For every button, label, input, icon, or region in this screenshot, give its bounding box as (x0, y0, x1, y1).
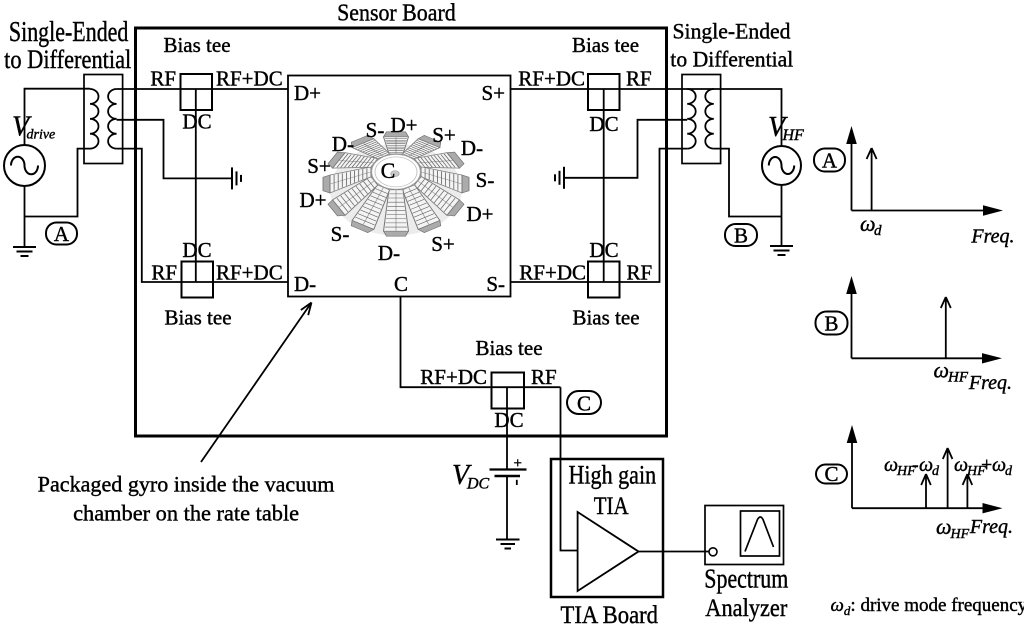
svg-text:DC: DC (182, 110, 211, 134)
svg-text:Freq.: Freq. (968, 372, 1012, 394)
svg-text:C: C (824, 462, 838, 486)
svg-text:S-: S- (331, 222, 350, 246)
label RF B3 (626, 67, 652, 91)
svg-text:to Differential: to Differential (4, 45, 131, 74)
transformer T1 primary coil (90, 89, 99, 149)
bias tee B2 (lower-left) box (182, 262, 214, 298)
svg-text:S-: S- (486, 272, 505, 296)
bias tee B5 (bottom) box (492, 373, 525, 409)
wire T1 center tap to ground (117, 120, 231, 179)
ground under V_drive (13, 247, 36, 256)
wire B5 DC to battery (506, 387, 508, 469)
svg-text:DC: DC (494, 408, 523, 432)
label Freq. plot C (969, 516, 1013, 538)
label Spectrum Analyzer (704, 564, 788, 623)
label RF+DC B1 (216, 67, 283, 91)
label Sensor Board (337, 0, 456, 27)
svg-text:chamber on the rate table: chamber on the rate table (73, 501, 299, 526)
svg-text:HF: HF (782, 127, 805, 144)
plot C axes (847, 425, 1003, 513)
svg-text:HF: HF (950, 527, 970, 542)
ground under battery (496, 540, 520, 549)
label Bias tee B5 (475, 336, 542, 360)
wire TIA output to spectrum analyzer (639, 551, 710, 553)
plot C marker (816, 462, 847, 486)
label DC B1 (182, 110, 211, 134)
label RF+DC B2 (216, 261, 283, 285)
svg-text:HF: HF (947, 370, 969, 386)
op-amp TIA triangle (578, 512, 639, 591)
plot B spectral line at omega_HF (941, 297, 951, 358)
label S- corner (486, 272, 505, 296)
label Packaged gyro caption (38, 472, 335, 526)
gyro package box (288, 76, 511, 297)
svg-text:D-: D- (378, 241, 400, 265)
plot A spectral line at omega_d (867, 148, 877, 211)
wire gyro S- lower line to T2 secondary bottom (511, 149, 688, 282)
label RF+DC B4 (519, 261, 586, 285)
wire V_drive bottom to ground (24, 186, 26, 247)
label V_DC (452, 460, 490, 493)
svg-text:A: A (822, 149, 838, 173)
svg-text:DC: DC (182, 238, 211, 262)
wire T2 center tap to ground (565, 120, 687, 178)
label Single-Ended to Differential (left) (4, 16, 131, 74)
label V_drive (12, 112, 55, 143)
plot A marker (814, 149, 845, 173)
svg-text:S-: S- (476, 168, 495, 192)
svg-text:RF: RF (151, 261, 177, 285)
ground sideways right (555, 167, 564, 189)
label omega_HF (934, 358, 969, 386)
wire B5 RF to TIA input (561, 387, 578, 550)
source V_HF (762, 146, 801, 185)
svg-text:-: - (912, 454, 919, 476)
svg-text:S+: S+ (432, 123, 456, 147)
svg-text:ω: ω (919, 454, 933, 476)
label RF B4 (627, 261, 653, 285)
bias tee B3 (top-right) box (588, 74, 620, 110)
svg-text:Sensor Board: Sensor Board (337, 0, 456, 27)
svg-text:RF+DC: RF+DC (518, 67, 585, 91)
transformer T2 box (682, 75, 721, 164)
label omega_HF minus omega_d (884, 454, 940, 479)
svg-text:+: + (514, 456, 522, 472)
label battery plus (514, 456, 522, 472)
svg-text:Bias tee: Bias tee (163, 33, 230, 57)
svg-text:D+: D+ (294, 81, 321, 105)
svg-text:d: d (932, 464, 940, 479)
svg-text:Bias tee: Bias tee (475, 336, 542, 360)
svg-text:Analyzer: Analyzer (705, 595, 788, 622)
label omega_HF below axis C (936, 514, 970, 542)
svg-text:TIA Board: TIA Board (561, 602, 659, 625)
svg-text:C: C (381, 158, 396, 183)
svg-text:DC: DC (466, 476, 490, 493)
label Freq. plot A (970, 226, 1014, 248)
svg-text:S-: S- (366, 118, 385, 142)
plot C spectral line at omega_HF plus omega_d (963, 474, 973, 508)
label V_HF (768, 112, 804, 144)
wire DC line left (B1 to B2) (195, 89, 197, 282)
plot C spectral line at omega_HF minus omega_d (921, 474, 931, 508)
label RF+DC B3 (518, 67, 585, 91)
svg-text:D-: D- (461, 136, 483, 160)
svg-text:S+: S+ (307, 154, 331, 178)
svg-text:RF+DC: RF+DC (519, 261, 586, 285)
ground sideways left (232, 167, 241, 189)
svg-text:RF+DC: RF+DC (216, 261, 283, 285)
transformer T2 primary coil (705, 89, 714, 149)
wire T2 primary bottom to V_HF bottom (714, 149, 782, 217)
annotation arrow to gyro box (201, 303, 312, 463)
svg-text:D+: D+ (299, 188, 326, 212)
svg-text:RF+DC: RF+DC (420, 365, 487, 389)
svg-text:ωd: drive mode frequency: ωd: drive mode frequency (831, 595, 1024, 618)
label Bias tee B3 (572, 33, 639, 57)
wire T1 secondary bottom to lower RF line (117, 149, 288, 282)
label Bias tee B1 (163, 33, 230, 57)
svg-text:S+: S+ (481, 81, 505, 105)
svg-text:RF: RF (531, 365, 557, 389)
ground under V_HF (770, 246, 793, 255)
source V_drive (4, 145, 45, 186)
battery V_DC (490, 470, 527, 477)
footnote omega_d drive mode frequency (831, 595, 1024, 618)
svg-text:C: C (394, 272, 408, 296)
svg-text:d: d (1005, 464, 1013, 479)
node C marker (567, 391, 601, 416)
label RF B5 (531, 365, 557, 389)
label D+ corner (294, 81, 321, 105)
label RF B1 (150, 67, 176, 91)
label DC B2 (182, 238, 211, 262)
plot C spectral line at omega_HF (943, 448, 953, 508)
svg-text:to Differential: to Differential (670, 47, 793, 72)
svg-text:Single-Ended: Single-Ended (9, 16, 129, 48)
transformer T2 secondary coil (687, 89, 696, 149)
svg-text:S+: S+ (431, 232, 455, 256)
svg-text:Bias tee: Bias tee (164, 306, 231, 330)
svg-text:D+: D+ (390, 113, 417, 137)
svg-text:DC: DC (589, 238, 618, 262)
label RF+DC B5 (420, 365, 487, 389)
label DC B4 (589, 238, 618, 262)
transformer T1 box (84, 75, 123, 164)
gyro die rendering (323, 132, 469, 236)
gyro petal labels (299, 113, 494, 265)
svg-text:d: d (874, 223, 882, 239)
label DC B5 (494, 408, 523, 432)
label omega_d (860, 211, 882, 239)
node B marker (725, 224, 757, 248)
svg-text:RF+DC: RF+DC (216, 67, 283, 91)
TIA board box (551, 459, 663, 597)
label C corner (394, 272, 408, 296)
svg-text:Freq.: Freq. (970, 226, 1014, 248)
svg-text:drive: drive (27, 128, 56, 143)
wire gyro C to B5 RF line (401, 297, 561, 388)
svg-text:D+: D+ (466, 202, 493, 226)
plot B marker (816, 312, 848, 336)
node A marker (46, 222, 77, 246)
label omega_HF plus omega_d (954, 454, 1013, 479)
svg-text:ω: ω (884, 454, 898, 476)
transformer T1 secondary coil (108, 89, 117, 149)
label C gyro center (381, 158, 396, 183)
label Single-Ended to Differential (right) (670, 19, 793, 72)
label TIA Board (561, 602, 659, 625)
wire battery to ground (506, 477, 508, 540)
svg-text:Bias tee: Bias tee (572, 306, 639, 330)
label RF B2 (151, 261, 177, 285)
svg-text:ω: ω (936, 514, 952, 539)
svg-text:ω: ω (954, 454, 968, 476)
bias tee B1 (top-left) box (181, 74, 213, 110)
svg-text:TIA: TIA (594, 493, 629, 520)
wire V_drive top to transformer primary (25, 89, 91, 145)
plot A axes (846, 126, 1003, 216)
svg-text:B: B (734, 224, 748, 248)
wire T1 primary bottom to V_drive bottom (25, 149, 91, 217)
spectrum analyzer box (705, 506, 784, 565)
svg-text:RF: RF (150, 67, 176, 91)
svg-text:RF: RF (627, 261, 653, 285)
wire T1 secondary top RF line to gyro D+ (117, 88, 288, 90)
svg-text:High gain: High gain (569, 461, 657, 490)
label S+ corner (481, 81, 505, 105)
bias tee B4 (lower-right) box (588, 262, 620, 298)
svg-text:ω: ω (934, 358, 950, 383)
svg-text:A: A (54, 222, 70, 246)
svg-text:B: B (824, 312, 838, 336)
svg-text:Freq.: Freq. (969, 516, 1013, 538)
svg-text:Packaged gyro inside the vacuu: Packaged gyro inside the vacuum (38, 472, 335, 497)
svg-text:C: C (577, 392, 591, 416)
svg-text:+: + (981, 454, 992, 476)
svg-text:Single-Ended: Single-Ended (673, 19, 791, 44)
svg-text:D-: D- (294, 272, 316, 296)
label Bias tee B4 (572, 306, 639, 330)
connector circle (709, 548, 717, 556)
label D- corner (294, 272, 316, 296)
plot B axes (846, 276, 1002, 364)
label Bias tee B2 (164, 306, 231, 330)
spectrum analyzer screen (741, 511, 780, 556)
svg-text:RF: RF (626, 67, 652, 91)
label High gain TIA (569, 461, 657, 520)
sensor board outline (136, 28, 667, 436)
svg-text:ω: ω (992, 454, 1006, 476)
label DC B3 (589, 112, 618, 136)
wire gyro S+ to T2 RF line (511, 89, 782, 146)
label battery minus (516, 480, 518, 485)
svg-text:D-: D- (332, 132, 354, 156)
wire DC line right (B3 to B4) (603, 89, 605, 282)
label Freq. plot B (968, 372, 1012, 394)
svg-text:Spectrum: Spectrum (704, 564, 788, 594)
svg-text:Bias tee: Bias tee (572, 33, 639, 57)
wire V_HF bottom to ground (781, 185, 783, 246)
